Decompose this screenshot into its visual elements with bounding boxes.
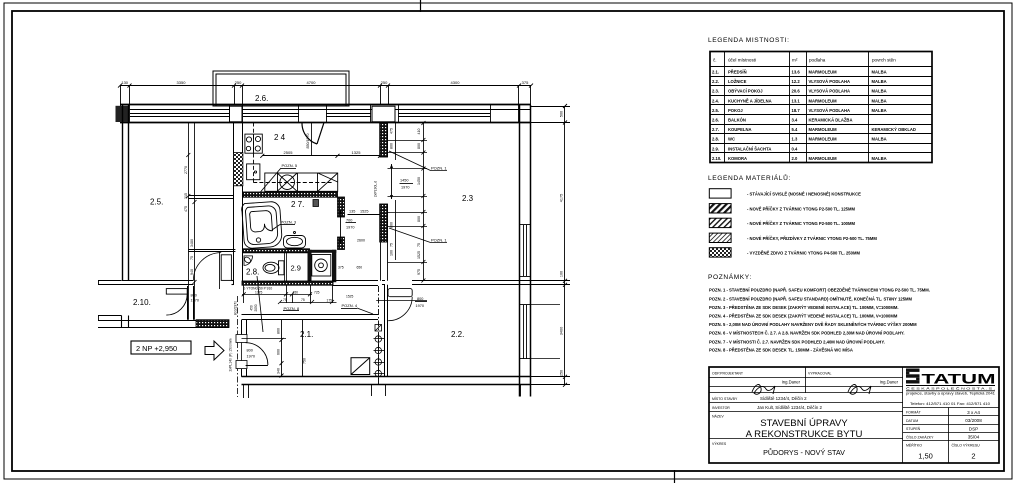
material swatch ytong 75 [709, 233, 731, 242]
dim texts 2505 1325 [284, 150, 362, 155]
right table values [965, 410, 982, 440]
svg-text:MALBA: MALBA [872, 98, 887, 103]
svg-text:375: 375 [522, 80, 529, 85]
svg-text:POKOJ: POKOJ [728, 108, 743, 113]
svg-text:OBÝVACÍ POKOJ: OBÝVACÍ POKOJ [728, 89, 763, 94]
svg-text:POZN. 5: POZN. 5 [282, 163, 298, 168]
svg-text:1.3: 1.3 [792, 137, 798, 142]
svg-text:2505: 2505 [284, 150, 294, 155]
svg-text:- NOVÉ PŘÍČKY, PŘIZDÍVKY Z TV: - NOVÉ PŘÍČKY, PŘIZDÍVKY Z TVÁRNIC YTONG… [747, 236, 877, 241]
svg-text:75: 75 [283, 298, 287, 302]
svg-text:800/1970: 800/1970 [234, 301, 238, 315]
kitchen stove unit [245, 134, 262, 153]
POZN. 8 label [283, 306, 300, 311]
bottom wall of room 2.5 [122, 281, 234, 285]
dim texts under bath block [244, 287, 354, 303]
svg-text:NÁZEV: NÁZEV [712, 415, 724, 419]
svg-text:725: 725 [314, 291, 320, 295]
svg-text:2.1.: 2.1. [712, 70, 719, 75]
svg-text:1525: 1525 [417, 251, 421, 259]
entry door frame blocks [236, 335, 247, 369]
svg-text:KERAMICKÝ OBKLAD: KERAMICKÝ OBKLAD [872, 127, 916, 132]
material swatch ytong 100 [709, 218, 731, 227]
svg-text:315: 315 [184, 193, 188, 199]
project name big [746, 418, 863, 440]
svg-text:1375: 1375 [255, 291, 263, 295]
svg-text:Jan Kult, Sídliště 1234/4, Děč: Jan Kult, Sídliště 1234/4, Děčín 2 [757, 405, 822, 410]
2.3 interior dimension chain [388, 121, 428, 283]
svg-text:MARMOLEUM: MARMOLEUM [809, 70, 838, 75]
svg-text:MÍSTO STAVBY: MÍSTO STAVBY [712, 397, 738, 401]
wall lower segment with hatch [380, 204, 388, 281]
svg-text:2.7.: 2.7. [712, 127, 719, 132]
svg-text:POZN. 8: POZN. 8 [284, 306, 300, 311]
new masonry hatch in wall 2.5/2.7 [234, 153, 243, 186]
svg-text:VLYSOVÁ PODLAHA: VLYSOVÁ PODLAHA [809, 79, 851, 84]
svg-text:POZN. 1: POZN. 1 [431, 237, 447, 242]
svg-text:1525: 1525 [360, 210, 368, 214]
svg-text:KERAMICKÁ DLAŽBA: KERAMICKÁ DLAŽBA [809, 118, 853, 123]
2.5 chain rotated texts [184, 166, 194, 275]
entry wall of hall 2.1 [242, 320, 247, 377]
svg-text:2.10.: 2.10. [133, 298, 151, 307]
svg-text:- VYZDĚNÉ ZDIVO Z TVÁRNIC YTO: - VYZDĚNÉ ZDIVO Z TVÁRNIC YTONG P4-500 T… [747, 250, 860, 255]
svg-text:2050: 2050 [254, 304, 258, 311]
svg-text:FORMÁT: FORMÁT [906, 411, 922, 415]
svg-text:600: 600 [277, 349, 281, 355]
svg-text:2770: 2770 [184, 166, 188, 174]
svg-text:2.5.: 2.5. [712, 108, 719, 113]
dim row under bath block [242, 285, 337, 303]
level label box 2 NP +2,950 [131, 341, 191, 354]
top wall window glazing [130, 114, 490, 117]
title block internal lines [709, 367, 903, 463]
plumbing stack circle symbols [374, 334, 385, 380]
room 2.10 right wall [188, 286, 194, 320]
svg-text:č.: č. [713, 58, 717, 63]
title block frame [709, 367, 999, 463]
notes lines [709, 288, 930, 353]
wall between hall and 2.2 [385, 285, 388, 377]
balcony door dim extension line [311, 123, 313, 156]
pocket door pouzdro black walls [308, 250, 337, 282]
svg-text:ČÍSLO VÝKRESU: ČÍSLO VÝKRESU [952, 443, 981, 448]
svg-text:2.2.: 2.2. [712, 79, 719, 84]
svg-text:975: 975 [417, 269, 421, 275]
svg-text:2: 2 [971, 452, 975, 461]
signature left [752, 385, 775, 395]
svg-text:100: 100 [390, 250, 394, 256]
svg-text:175: 175 [327, 298, 333, 302]
svg-text:- NOVÉ PŘÍČKY Z TVÁRNIC YTONG: - NOVÉ PŘÍČKY Z TVÁRNIC YTONG P2-500 TL.… [747, 206, 855, 211]
svg-text:POZN. 5 - 2,00M NAD ÚROVNÍ P: POZN. 5 - 2,00M NAD ÚROVNÍ PODLAHY NAVRŽ… [709, 322, 917, 327]
svg-text:- STÁVAJÍCÍ SVISLÉ (NOSNÉ I N: - STÁVAJÍCÍ SVISLÉ (NOSNÉ I NENOSNÉ) KON… [747, 192, 861, 197]
svg-text:LOŽNICE: LOŽNICE [728, 79, 747, 84]
title block left labels [712, 372, 832, 447]
svg-text:MARMOLEUM: MARMOLEUM [809, 137, 838, 142]
svg-text:2.8.: 2.8. [712, 137, 719, 142]
dim 800/1970 at 2.2 door [415, 297, 427, 308]
bath bottom wall lines [333, 281, 378, 286]
svg-text:4175: 4175 [560, 194, 564, 202]
svg-text:MALBA: MALBA [872, 89, 887, 94]
door of 2.10 leaf and swing [166, 289, 187, 316]
svg-text:250: 250 [560, 370, 564, 376]
svg-text:POZN. 3: POZN. 3 [281, 219, 297, 224]
corridor dim 135 1525 [348, 210, 381, 215]
bath block left wall [242, 186, 244, 285]
logo sub band [906, 385, 995, 406]
svg-text:PŮDORYS - NOVÝ STAV: PŮDORYS - NOVÝ STAV [763, 448, 845, 457]
svg-text:800: 800 [247, 349, 253, 353]
dimension chain inside 2.5 [186, 123, 196, 320]
svg-text:ODP.PROJEKTANT: ODP.PROJEKTANT [712, 372, 744, 376]
fold mark bottom [674, 470, 676, 483]
wall between 2.5 and 2.4 [234, 123, 243, 286]
svg-text:POZN. 8 - PŘEDSTĚNA ZE SDK D: POZN. 8 - PŘEDSTĚNA ZE SDK DESEK TL. 150… [709, 348, 853, 353]
balcony door leaf and swing [302, 123, 324, 145]
small symbol box next to 2.7 label [313, 200, 319, 207]
svg-text:A REKONSTRUKCE BYTU: A REKONSTRUKCE BYTU [746, 429, 863, 440]
door to 2.5 leaf and swing [193, 251, 231, 289]
svg-text:800: 800 [417, 297, 423, 301]
new wall hatch upper [380, 123, 388, 157]
wall between 2.8 and 2.9 [285, 253, 287, 281]
door 700/1970 arrow and texts [339, 210, 356, 244]
new masonry hatch in corridor bottom wall [196, 320, 229, 328]
svg-text:2xPL90L.d: 2xPL90L.d [374, 181, 378, 197]
svg-text:18.7: 18.7 [792, 108, 801, 113]
wall between 2.7 and hall with door opening [338, 197, 345, 250]
svg-text:475: 475 [390, 128, 394, 134]
hall chain texts [277, 328, 281, 374]
svg-text:1970: 1970 [346, 226, 354, 230]
fold mark top [420, 0, 422, 12]
material legend texts [747, 192, 877, 256]
material swatch existing walls [709, 189, 731, 198]
svg-text:2.3: 2.3 [462, 194, 474, 203]
svg-text:3350: 3350 [177, 80, 187, 85]
new wall hatch below kitchen counter [243, 192, 338, 197]
title block right table lines [903, 408, 999, 464]
svg-text:WC: WC [728, 137, 735, 142]
svg-text:35/04: 35/04 [968, 435, 980, 440]
door to 2.2 leaf and swing [376, 289, 427, 321]
wall between 2.7/2.8 hatch [243, 249, 310, 253]
svg-text:POZN. 2 - STAVEBNÍ POUZDRO (: POZN. 2 - STAVEBNÍ POUZDRO (NAPŘ. SAFEU … [709, 296, 913, 301]
svg-text:450: 450 [250, 305, 254, 311]
svg-text:1325: 1325 [352, 150, 362, 155]
toilet in 2.8 [263, 261, 284, 275]
svg-text:INSTALAČNÍ ŠACHTA: INSTALAČNÍ ŠACHTA [728, 146, 771, 151]
svg-text:4300: 4300 [451, 80, 461, 85]
svg-text:2 7.: 2 7. [291, 200, 304, 209]
svg-text:POZN. 4 - PŘEDSTĚNA ZE SDK D: POZN. 4 - PŘEDSTĚNA ZE SDK DESEK (ZAKRÝT… [709, 314, 898, 319]
svg-text:1450: 1450 [417, 177, 421, 185]
svg-text:MARMOLEUM: MARMOLEUM [809, 156, 838, 161]
section dash-dot line at entry wall [237, 296, 239, 397]
svg-text:MALBA: MALBA [872, 79, 887, 84]
svg-text:2.5.: 2.5. [150, 198, 163, 207]
svg-text:KOUPELNA: KOUPELNA [728, 127, 752, 132]
svg-text:2 NP +2,950: 2 NP +2,950 [136, 344, 177, 353]
svg-text:250: 250 [235, 80, 242, 85]
svg-text:LEGENDA MATERIÁLŮ:: LEGENDA MATERIÁLŮ: [708, 173, 791, 182]
STATUM logo S glyph [906, 369, 920, 384]
svg-text:130: 130 [121, 80, 128, 85]
svg-text:410: 410 [417, 129, 421, 135]
leader from 2.8 label [257, 276, 263, 332]
legend table rows [712, 70, 916, 161]
right chain rotated texts [560, 111, 564, 376]
svg-text:850/1970: 850/1970 [306, 134, 310, 149]
svg-text:75: 75 [417, 243, 421, 247]
svg-text:MĚŘÍTKO: MĚŘÍTKO [906, 443, 922, 448]
svg-text:MALBA: MALBA [872, 137, 887, 142]
svg-text:1970: 1970 [401, 186, 409, 190]
rotated dims along 2.3 left wall [390, 128, 394, 256]
svg-text:4700: 4700 [307, 80, 317, 85]
svg-text:100: 100 [560, 271, 564, 277]
signature right [848, 385, 871, 395]
svg-text:700: 700 [346, 219, 352, 223]
svg-text:20.6: 20.6 [792, 89, 801, 94]
kitchen sink unit [247, 164, 260, 180]
dim 800/1970 at hall door [247, 349, 255, 359]
svg-text:3480: 3480 [190, 239, 194, 247]
svg-text:2.3.: 2.3. [712, 89, 719, 94]
svg-text:2.4.: 2.4. [712, 98, 719, 103]
top dimension texts [121, 80, 529, 85]
svg-text:2.0: 2.0 [792, 156, 798, 161]
svg-text:LEGENDA MISTNOSTI:: LEGENDA MISTNOSTI: [708, 37, 790, 44]
svg-text:3.4: 3.4 [792, 118, 798, 123]
svg-text:VLYSOVÁ PODLAHA: VLYSOVÁ PODLAHA [809, 108, 851, 113]
svg-text:3400: 3400 [560, 327, 564, 335]
svg-text:860: 860 [277, 328, 281, 334]
svg-text:475: 475 [184, 206, 188, 212]
svg-text:940: 940 [190, 269, 194, 275]
svg-text:2.9.: 2.9. [712, 146, 719, 151]
svg-text:340: 340 [277, 368, 281, 374]
ventilation shaft box with diagonal [351, 358, 370, 375]
corner washbasin in 2.8 [243, 256, 252, 266]
svg-text:KUCHYNĚ A JÍDELNA: KUCHYNĚ A JÍDELNA [728, 98, 772, 103]
svg-text:Sídliště 1234/4, Děčín 2: Sídliště 1234/4, Děčín 2 [760, 396, 807, 401]
svg-text:250: 250 [381, 80, 388, 85]
new wall hatch lower [380, 204, 388, 242]
svg-text:13.1: 13.1 [792, 98, 801, 103]
material swatch ytong 250 [709, 248, 731, 257]
svg-text:650: 650 [357, 266, 363, 270]
rotated door dims 450 2050 [250, 304, 259, 311]
material swatch ytong 125 [709, 204, 731, 213]
left wall lower segment below 2.10 door [122, 316, 129, 328]
svg-text:800: 800 [417, 216, 421, 222]
svg-text:projekce, stavby a úpravy stav: projekce, stavby a úpravy staveb, Teplic… [906, 392, 995, 396]
svg-text:800: 800 [417, 143, 421, 149]
beam line across 2.5 [188, 196, 233, 199]
svg-text:MALBA: MALBA [872, 108, 887, 113]
kitchen axis dashed lines [253, 123, 333, 184]
svg-text:3 x A4: 3 x A4 [967, 410, 980, 415]
legend table frame [710, 52, 932, 163]
svg-text:DATUM: DATUM [906, 419, 918, 423]
dim chain line right of wall [395, 123, 397, 261]
scale and sheet number [918, 452, 975, 461]
right exterior wall [520, 105, 531, 397]
POZN. 5 label with leader [260, 163, 298, 193]
svg-text:800: 800 [390, 143, 394, 149]
svg-text:MALBA: MALBA [872, 156, 887, 161]
svg-text:- NOVÉ PŘÍČKY Z TVÁRNIC YTONG: - NOVÉ PŘÍČKY Z TVÁRNIC YTONG P2-500 TL.… [747, 221, 855, 226]
svg-text:INVESTOR: INVESTOR [712, 406, 730, 410]
svg-text:VYPRACOVAL: VYPRACOVAL [808, 372, 832, 376]
svg-text:podlaha: podlaha [809, 58, 826, 63]
svg-text:POZN. 1 - STAVEBNÍ POUZDRO (: POZN. 1 - STAVEBNÍ POUZDRO (NAPŘ. SAFEU … [709, 288, 930, 293]
svg-text:MARMOLEUM: MARMOLEUM [809, 98, 838, 103]
svg-text:750: 750 [303, 358, 307, 364]
svg-text:1970: 1970 [416, 304, 424, 308]
svg-text:800: 800 [390, 222, 394, 228]
svg-text:Telefon: 412/571 410 01 Fax:: Telefon: 412/571 410 01 Fax: 412/571 410 [910, 402, 990, 406]
svg-text:1970: 1970 [247, 355, 255, 359]
svg-text:účel místnosti: účel místnosti [728, 58, 756, 63]
beam line lower across 2.5 [188, 250, 235, 252]
svg-text:VLYSOVÁ PODLAHA: VLYSOVÁ PODLAHA [809, 89, 851, 94]
left exterior wall of 2.5 [123, 105, 129, 281]
corridor door reveal stubs at left [98, 281, 128, 321]
svg-text:POZN. 3 - PŘEDSTĚNA ZE SDK D: POZN. 3 - PŘEDSTĚNA ZE SDK DESEK (ZAKRÝT… [709, 305, 899, 310]
svg-text:MALBA: MALBA [872, 70, 887, 75]
hall door leaf and swing [242, 339, 287, 366]
legend table header [713, 58, 896, 63]
top dimension chain [118, 84, 533, 105]
svg-text:2.1.: 2.1. [300, 330, 313, 339]
wall between 2.3 and 2.2 [382, 281, 531, 285]
svg-text:135: 135 [349, 210, 355, 214]
svg-text:2.8.: 2.8. [246, 268, 259, 277]
svg-text:POZNÁMKY:: POZNÁMKY: [708, 272, 752, 281]
svg-text:12.2: 12.2 [792, 79, 801, 84]
svg-text:0.4: 0.4 [792, 146, 798, 151]
hall dimension chain 860/600/340 [280, 320, 284, 378]
svg-text:2.2.: 2.2. [451, 330, 464, 339]
svg-text:5.4: 5.4 [792, 127, 798, 132]
svg-text:STAVEBNÍ ÚPRAVY: STAVEBNÍ ÚPRAVY [760, 418, 848, 429]
dim 800/1970 at 2.10 door [191, 294, 199, 303]
svg-text:STUPEŇ: STUPEŇ [906, 427, 921, 431]
dims 375 650 in pouzdro [338, 266, 362, 270]
svg-text:75: 75 [190, 256, 194, 260]
svg-text:PŘEDSÍŇ: PŘEDSÍŇ [728, 70, 747, 75]
corridor bottom wall [98, 321, 229, 328]
svg-text:2.10.: 2.10. [712, 156, 721, 161]
svg-text:800: 800 [191, 294, 197, 298]
right wall window glazing 2.3 [520, 225, 531, 277]
svg-text:POZN. 7 - V MÍSTNOSTI Č. 2.7: POZN. 7 - V MÍSTNOSTI Č. 2.7. NAVRŽEN SD… [709, 339, 885, 344]
svg-text:75: 75 [301, 298, 305, 302]
dim 1450/1970 [400, 179, 414, 190]
washbasin in 2.7 [284, 232, 306, 249]
2.3 chain rotated texts [417, 129, 421, 276]
svg-text:1,50: 1,50 [918, 452, 933, 461]
dim slashes on hall rows [242, 292, 334, 304]
top wall corner pier left dark [116, 106, 130, 122]
svg-text:500: 500 [560, 111, 564, 117]
svg-text:2.9: 2.9 [291, 264, 301, 273]
right dimension chain [531, 104, 570, 387]
svg-text:Č E S K Á S P O L E Č N O S: Č E S K Á S P O L E Č N O S T A . S . [906, 385, 995, 390]
wall between kitchen block and 2.3 upper segment [380, 123, 388, 158]
svg-text:2.6.: 2.6. [712, 118, 719, 123]
svg-text:MARMOLEUM: MARMOLEUM [809, 127, 838, 132]
svg-text:2600: 2600 [357, 239, 365, 243]
svg-text:Ing.Daner: Ing.Daner [880, 380, 899, 385]
svg-text:POZN. 1: POZN. 1 [431, 165, 447, 170]
POZN. 3 label with leader [272, 219, 297, 230]
svg-text:BALKÓN: BALKÓN [728, 118, 746, 123]
svg-text:1450: 1450 [400, 179, 408, 183]
svg-text:Ing.Daner: Ing.Daner [782, 380, 801, 385]
svg-text:KOMORA: KOMORA [728, 156, 747, 161]
wall stubs below bottom wall [244, 385, 531, 398]
svg-text:2.6.: 2.6. [255, 94, 268, 103]
opening to 2.3 arrows [390, 164, 393, 199]
shaft marker box with diagonal on wall [375, 325, 382, 332]
top wall pier block between kitchen and 2.3 [372, 106, 395, 122]
POZN. 4 label with leader [341, 303, 373, 314]
bath block bottom hatch wall [242, 281, 333, 285]
shower with drain in shaft niche [312, 255, 331, 277]
hall 2.1 top wall [242, 315, 379, 320]
svg-text:1525: 1525 [346, 295, 354, 299]
right table labels [906, 411, 980, 448]
svg-text:POZN. 4: POZN. 4 [342, 303, 358, 308]
POZN. 1 label upper with leader [389, 151, 447, 171]
POZN. 1 label lower with leader [389, 228, 447, 243]
right wall window glazing 2.2 [520, 305, 531, 360]
balcony 2.6 outline [213, 71, 349, 106]
top wall pier edges [121, 105, 531, 123]
top wall pier block left of kitchen [230, 106, 243, 122]
svg-text:03/2008: 03/2008 [965, 418, 982, 423]
svg-text:POZN. 6 - V MÍSTNOSTECH Č. 2: POZN. 6 - V MÍSTNOSTECH Č. 2.7. A 2.8. N… [709, 331, 905, 336]
svg-text:375: 375 [338, 266, 344, 270]
svg-text:13.6: 13.6 [792, 70, 801, 75]
svg-text:VÝKRES: VÝKRES [712, 442, 727, 446]
dim line 2505 1325 [260, 154, 382, 158]
svg-text:povrch stěn: povrch stěn [872, 58, 896, 63]
bottom exterior wall [242, 377, 532, 385]
kitchen counter with appliances [265, 173, 338, 191]
svg-text:TATUM: TATUM [922, 372, 996, 387]
address values [757, 396, 822, 410]
top exterior wall [120, 105, 531, 123]
dash-dot line near wall 2.1/2.2 [378, 286, 380, 384]
bathtub [241, 201, 282, 249]
hall chain 750 [303, 320, 307, 377]
svg-text:2xPL140 (P) 1500mm: 2xPL140 (P) 1500mm [229, 338, 233, 371]
svg-text:DSP: DSP [969, 426, 978, 431]
drafter names [782, 380, 899, 385]
svg-text:m²: m² [792, 58, 798, 63]
svg-text:2 4: 2 4 [274, 133, 286, 142]
svg-text:ČÍSLO ZAKÁZKY: ČÍSLO ZAKÁZKY [906, 434, 934, 439]
entry direction arrow [205, 341, 224, 360]
svg-text:75: 75 [390, 243, 394, 247]
